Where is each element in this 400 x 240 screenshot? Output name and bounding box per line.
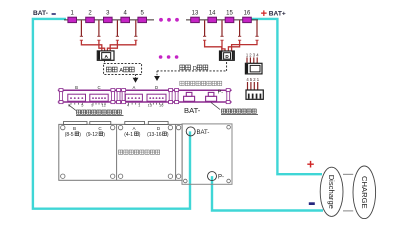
battery cell 13 [191,17,200,22]
balance connector pins lower [247,82,249,90]
svg-text:16: 16 [244,11,251,17]
sense wire cell tap 4 connector break [134,39,137,41]
standoff group between C and A [111,89,115,92]
svg-text:+: + [307,156,315,171]
svg-text:5: 5 [81,103,83,108]
sense wire cell tap 3 lower segment to port A [107,40,117,51]
wire BAT- negative main loop (cyan) [33,19,190,209]
standoff group left end [59,89,63,92]
terminal tab P- on side view [206,96,217,101]
callout box port A label [104,64,142,75]
side-view connector C [90,94,108,101]
top view board outline [59,124,182,180]
svg-text:4: 4 [124,11,128,17]
wire battery series link [64,19,154,21]
minus symbol load side [309,202,315,205]
connector plug D inner body with letter D [224,53,231,59]
sense wire cell tap 14 lower segment to port D [222,40,225,51]
svg-text:P-: P- [218,175,224,181]
top view connector footprints [64,122,88,125]
battery cell 5 [138,17,147,22]
svg-text:Discharge: Discharge [327,175,336,209]
svg-text:(9-12: (9-12 [86,132,98,138]
terminal board mounting holes [227,125,231,129]
svg-text:+: + [261,8,267,20]
svg-text:BAT-: BAT- [184,106,201,115]
wire P- to load (cyan) [212,176,323,210]
svg-text:15: 15 [226,11,233,17]
discharge load ellipse [320,167,343,216]
callout arrow to board port D [156,71,158,76]
sense wire cell tap 4 lower segment to port A [110,40,136,51]
charge source ellipse [353,166,376,219]
sense wire cell tap 13 upper segment [204,20,206,36]
svg-text:P-: P- [218,90,224,96]
sense wire cell tap 16 lower segment to port D [232,40,257,51]
sense wire cell tap 1 lower segment to port A [81,40,101,51]
terminal BAT- pad circle [186,127,195,136]
sense wire cell tap 16 upper segment [256,20,258,36]
protection board side-view top rail [58,89,232,91]
svg-text:A: A [104,54,108,60]
svg-text:4: 4 [256,52,259,57]
svg-text:9: 9 [91,103,93,108]
terminal board outline [182,124,232,184]
sense wire cell tap 2 lower segment to port A [99,40,105,51]
aux connector pins upper [246,57,248,63]
link wires between discharge and charge [343,173,353,175]
callout dashed line port D [157,70,227,72]
sense wire cell tap 2 upper segment [98,20,100,36]
svg-text:A: A [132,85,135,90]
side view board title text [180,81,184,85]
aux connector plug housing [245,63,262,74]
connector plug A housing [97,51,114,60]
terminal tab BAT- on side view [184,96,195,101]
connector plug A inner body with letter A [102,53,111,60]
battery cell 1 [68,17,77,22]
connector plug D housing [220,51,235,60]
standoff group right end [226,89,230,92]
battery cell 2 [86,17,95,22]
svg-text:(13-16: (13-16 [147,132,162,138]
svg-text:BAT-: BAT- [197,130,210,136]
terminal P- pad circle [208,172,217,181]
svg-text:16: 16 [159,103,163,108]
balance connector socket housing [246,90,263,99]
wire battery series link right [186,19,258,21]
sense wire cell tap 15 upper segment [239,20,241,36]
svg-text:2: 2 [88,11,92,17]
svg-text:CHARGE: CHARGE [360,176,369,209]
protection board side-view bottom rail [58,101,232,103]
sense wire cell tap 1 upper segment [80,20,82,36]
svg-text:14: 14 [209,11,216,17]
sense wire cell tap 1 connector break [80,39,83,41]
sense wire cell tap 14 connector break [220,39,223,41]
sense wire cell tap 15 connector break [238,39,241,41]
ellipsis dots battery string [159,18,163,22]
sense wire cell tap 4 upper segment [135,20,137,36]
wire BAT+ positive to load (cyan) [251,19,322,174]
svg-text:13: 13 [148,103,152,108]
side-view connector B [68,94,86,101]
svg-text:B: B [75,85,78,90]
sense wire cell tap 13 connector break [203,39,206,41]
sense wire cell tap 14 upper segment [221,20,223,36]
svg-text:BAT-: BAT- [33,10,48,17]
svg-text:1: 1 [138,103,140,108]
side-view connector D [147,94,166,101]
svg-text:13: 13 [192,11,199,17]
sense wire cell tap 16 connector break [255,39,258,41]
callout dashed leader to plug A [104,61,106,64]
label load port text [222,109,226,113]
top view board divider 2 [175,124,177,180]
battery cell 15 [225,17,234,22]
standoff group between D and tabs [169,89,173,92]
ellipsis dots middle ports [159,55,163,59]
label detect harness port text [77,110,81,114]
svg-text:A: A [119,68,123,74]
side-view connector A [125,94,142,101]
battery cell 14 [208,17,217,22]
svg-text:BAT+: BAT+ [269,11,286,18]
sense wire cell tap 3 upper segment [116,20,118,36]
negative polarity dash top left [52,13,56,15]
battery cell 3 [104,17,113,22]
svg-text:C: C [97,85,100,90]
sense wire cell tap 3 connector break [116,39,119,41]
svg-text:B: B [73,126,76,131]
battery cell 4 [121,17,130,22]
battery cell 16 [243,17,252,22]
svg-text:5: 5 [141,11,145,17]
top view board title text [119,150,123,154]
svg-text:D: D [155,85,158,90]
svg-text:4: 4 [127,103,130,108]
svg-text:(4-1: (4-1 [124,132,133,138]
sense wire cell tap 15 lower segment to port D [228,40,239,51]
leader line detect harness label [69,105,77,111]
top view board divider 1 [116,124,118,180]
sense wire cell tap 2 connector break [97,39,100,41]
top view mounting holes [61,125,65,129]
svg-text:3: 3 [106,11,110,17]
svg-text:12: 12 [102,103,106,108]
svg-text:1: 1 [71,11,75,17]
callout box port D label [180,65,185,70]
callout arrow to board port A [135,74,137,78]
svg-text:(8-5: (8-5 [65,132,74,138]
leader line load port label [211,103,220,110]
svg-text:1: 1 [257,77,260,82]
sense wire cell tap 13 lower segment to port D [205,40,222,51]
